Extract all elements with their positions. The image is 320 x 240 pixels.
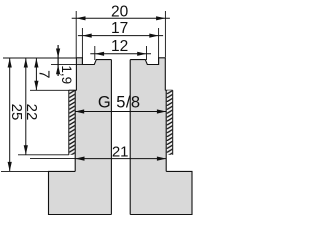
- svg-text:7: 7: [35, 70, 52, 78]
- neck outer wall right: [164, 58, 166, 91]
- dimension 12 line: [90, 53, 151, 55]
- extension line for 12 left: [94, 46, 96, 60]
- thread G5/8 hatch band left: [69, 90, 75, 155]
- thread G5/8 hatch band right: [167, 90, 173, 155]
- dimension 7 arrow bottom: [34, 81, 38, 90]
- thread major diameter line left: [68, 90, 70, 155]
- dimension 12 arrow right: [137, 52, 146, 56]
- dimension 20 arrow right: [156, 16, 165, 20]
- thread designation arrow right: [157, 109, 166, 113]
- center slot wall left: [110, 60, 112, 215]
- dimension 7 arrow top: [34, 58, 38, 67]
- flange outline right: [130, 171, 192, 214]
- dimension 17 arrow left: [82, 34, 91, 38]
- dimension 25 line: [9, 58, 11, 171]
- extension line thread end (y154.8): [18, 154, 69, 156]
- dimension 21 arrow right: [157, 157, 166, 161]
- extension line top face (y58): [3, 57, 76, 59]
- body section fill left half: [49, 58, 112, 215]
- svg-text:22: 22: [23, 104, 40, 121]
- dimension 7 line: [35, 58, 37, 90]
- dimension 22 arrow top: [24, 58, 28, 67]
- flange body fill right: [130, 171, 192, 214]
- svg-text:12: 12: [111, 38, 128, 55]
- extension line for 12 right: [146, 46, 148, 60]
- extension line for 17 right: [158, 28, 160, 65]
- extension line for 17 left: [81, 28, 83, 65]
- dimension 17 arrow right: [149, 34, 158, 38]
- dimension 20 line: [72, 17, 170, 19]
- dimension 25 arrow bottom: [8, 162, 12, 171]
- thread minor / bore wall left: [74, 90, 76, 171]
- thread start shoulder left: [69, 89, 77, 91]
- extension line for 20 left: [75, 11, 77, 58]
- thread minor / bore wall right: [165, 90, 167, 171]
- dimension 1,9 line: [57, 45, 59, 76]
- extension line for 20 right: [164, 11, 166, 58]
- svg-text:1,9: 1,9: [59, 65, 74, 84]
- dimension 1,9 arrow above: [56, 49, 60, 58]
- dimension 21 line: [75, 158, 166, 160]
- body section fill right half: [130, 58, 192, 215]
- extension line bore bottom (y158.6): [30, 158, 75, 160]
- dimension 20 arrow left: [76, 16, 85, 20]
- thread major diameter line right: [172, 90, 174, 155]
- top face profile right (rim, groove, tooth): [130, 58, 165, 65]
- svg-text:17: 17: [111, 20, 128, 37]
- dimension 25 arrow top: [8, 58, 12, 67]
- dimension 12 arrow left: [95, 52, 104, 56]
- svg-text:G 5/8: G 5/8: [98, 93, 141, 111]
- center slot wall right: [129, 60, 131, 215]
- dimension 1,9 arrow below: [56, 65, 60, 74]
- dimension 17 line: [78, 35, 163, 37]
- neck outer wall left: [75, 58, 77, 91]
- extension line flange top (y171.4): [1, 170, 49, 172]
- extension line groove floor (y64.6): [51, 64, 82, 66]
- svg-text:21: 21: [112, 143, 129, 160]
- thread designation G 5/8 line: [75, 111, 166, 113]
- flange outline left: [49, 171, 112, 214]
- thread start shoulder right: [165, 89, 172, 91]
- top face profile left (rim, groove, tooth): [76, 58, 111, 65]
- dimension 22 line: [25, 58, 27, 155]
- flange body fill left: [49, 171, 112, 214]
- dimension 22 arrow bottom: [24, 145, 28, 154]
- svg-text:20: 20: [111, 3, 129, 20]
- thread designation arrow left: [75, 109, 84, 113]
- extension line neck bottom (y90.3): [30, 89, 76, 91]
- dimension 21 arrow left: [75, 157, 84, 161]
